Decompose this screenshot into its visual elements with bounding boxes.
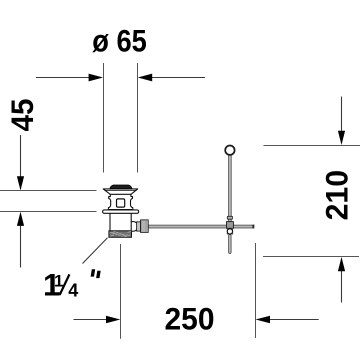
lower flange plate <box>103 210 139 213</box>
extension line 210 bottom <box>263 256 359 258</box>
dimension line 250 left with right arrow <box>74 316 121 323</box>
dimension label 45 (rotated) <box>4 99 40 132</box>
pull rod ball knob <box>225 146 234 155</box>
dome cap <box>110 185 132 189</box>
flange top rim line <box>105 189 137 191</box>
dimension label 210 (rotated) <box>319 170 355 221</box>
lever rod end cap <box>252 225 254 229</box>
extension line 210 top <box>264 145 360 147</box>
leader line from 1 1/4 label to thread <box>83 238 108 264</box>
extension line 45 top <box>0 190 97 192</box>
extension line 45 bottom <box>0 211 97 213</box>
knurled nut <box>141 220 149 233</box>
dimension line 210 bottom with up arrow <box>338 257 345 303</box>
dimension line 45 lower with up arrow <box>17 212 24 268</box>
upper flange <box>103 189 138 194</box>
extension line left of ø65 <box>103 63 105 173</box>
waste fitting: pull rod vertical <box>229 155 232 223</box>
outlet collar <box>137 222 141 231</box>
joint clevis right plate <box>232 228 234 234</box>
dimension line 45 upper with down arrow <box>17 135 24 191</box>
joint screw circle <box>227 229 232 234</box>
svg-text:250: 250 <box>165 301 215 337</box>
dimension label 250 <box>165 301 215 337</box>
dimension line ø65 right with arrow <box>138 74 205 82</box>
dimension line 250 right with left arrow <box>256 316 319 323</box>
rod bead collar <box>227 216 232 219</box>
horizontal lever rod <box>148 225 254 228</box>
svg-text:210: 210 <box>319 170 355 221</box>
extension line right of ø65 <box>137 63 139 173</box>
lower rod segment <box>229 235 232 254</box>
svg-text:4: 4 <box>68 280 78 300</box>
extension line 250 left <box>120 244 122 339</box>
threaded tailpiece <box>109 231 132 238</box>
joint clevis left plate <box>227 228 229 234</box>
dimension line ø65 left with arrow <box>36 74 103 82</box>
square window in body <box>117 199 125 207</box>
svg-text:45: 45 <box>4 99 40 132</box>
inch double prime marks <box>91 269 96 276</box>
waste body upper (vase shape) <box>108 194 132 210</box>
rod joint block <box>227 222 234 229</box>
dimension line 210 top with down arrow <box>338 97 345 146</box>
outlet boss <box>128 222 138 232</box>
extension line 250 right <box>255 243 257 338</box>
label 1 1/4 inch <box>43 267 101 303</box>
svg-text:ø 65: ø 65 <box>92 22 147 58</box>
dimension label ø 65 <box>92 22 147 58</box>
waste body cylinder <box>110 209 131 231</box>
